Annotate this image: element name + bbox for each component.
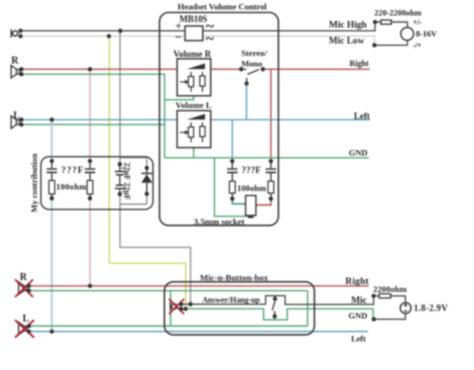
svg-text:L: L xyxy=(23,314,30,325)
svg-text:R: R xyxy=(20,272,28,283)
svg-text:3.5mm socket: 3.5mm socket xyxy=(194,217,245,227)
svg-text:Volume L: Volume L xyxy=(176,100,212,110)
svg-text:Right: Right xyxy=(349,59,369,68)
svg-text:GND: GND xyxy=(349,148,368,158)
svg-text:1.8-2.9V: 1.8-2.9V xyxy=(414,303,449,313)
svg-text:Stereo/: Stereo/ xyxy=(241,48,267,58)
svg-text:8-16V: 8-16V xyxy=(416,29,438,39)
svg-text:Headset Volume Control: Headset Volume Control xyxy=(178,1,268,11)
svg-text:+: + xyxy=(122,189,126,196)
svg-text:Mic High: Mic High xyxy=(329,21,368,31)
svg-text:100ohm: 100ohm xyxy=(237,183,266,193)
svg-text:Right: Right xyxy=(345,277,369,287)
svg-text:Volume R: Volume R xyxy=(173,49,211,59)
svg-text:R: R xyxy=(11,56,19,67)
svg-text:~: ~ xyxy=(206,31,215,48)
svg-text:???F: ???F xyxy=(242,165,262,175)
svg-text:Left: Left xyxy=(351,334,366,344)
svg-text:-/+: -/+ xyxy=(413,41,422,50)
svg-text:Mic-n-Button-box: Mic-n-Button-box xyxy=(200,272,269,282)
svg-text:220-2200ohm: 220-2200ohm xyxy=(374,9,421,18)
svg-text:+/-: +/- xyxy=(413,18,422,27)
svg-text:My contribution: My contribution xyxy=(29,153,39,212)
svg-text:2200ohm: 2200ohm xyxy=(373,284,408,294)
svg-text:GND: GND xyxy=(348,310,367,320)
svg-text:???F: ???F xyxy=(61,165,83,175)
svg-text:Mic: Mic xyxy=(351,296,367,306)
svg-text:Mono: Mono xyxy=(241,59,262,69)
svg-text:+: + xyxy=(121,165,125,172)
svg-text:MB10S: MB10S xyxy=(179,14,207,24)
svg-text:L: L xyxy=(13,110,20,121)
svg-text:Mic Low: Mic Low xyxy=(329,36,365,46)
svg-text:100ohm: 100ohm xyxy=(56,182,86,192)
svg-text:Answer/Hang-up: Answer/Hang-up xyxy=(202,295,260,304)
svg-text:Left: Left xyxy=(354,111,370,121)
svg-text:−: − xyxy=(175,30,182,44)
